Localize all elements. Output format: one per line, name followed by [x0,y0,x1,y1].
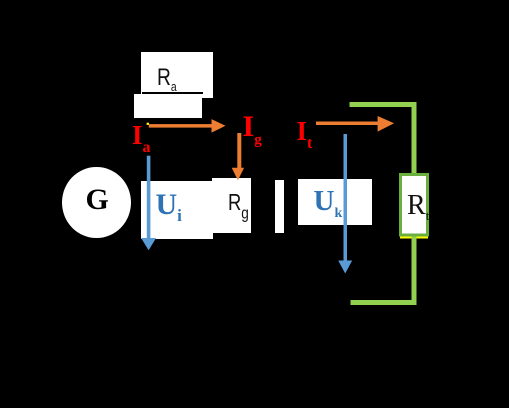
load resistor Rt box [401,175,428,236]
wire green loop to Rt [350,105,415,303]
arrow current It [316,116,394,132]
current label Ig [243,112,262,148]
resistor Ra body rectangle [134,94,203,118]
yellow dash at arrow Ia start [147,123,149,125]
arrow current Ig [232,133,244,180]
wire gap bar [275,180,285,233]
voltage box Ui [141,181,213,239]
yellow mark under Rt [400,237,428,239]
wire seam under Ra label box [142,92,203,94]
voltage box Uk [298,179,372,225]
arrow voltage Ui [141,156,156,251]
label Ui [156,190,182,224]
resistor Rg box [212,178,252,234]
load resistor Rt label [407,192,429,222]
label Uk [314,187,343,221]
label Rg [228,191,249,222]
generator G circle [62,167,131,239]
resistor Ra label box [141,52,213,98]
current label It [297,118,313,152]
resistor Ra value label [157,66,177,93]
generator G label [86,185,109,215]
current label Ia [132,122,151,156]
arrow current Ia [149,119,226,133]
arrow voltage Uk [338,134,352,274]
